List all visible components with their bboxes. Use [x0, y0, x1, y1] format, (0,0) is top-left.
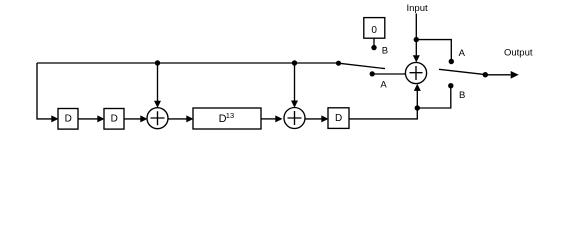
- arrow down into X2: [291, 101, 298, 108]
- wire J3 to switch contact B2: [417, 86, 451, 108]
- wire X2 to D3: [305, 118, 322, 120]
- arrow into D2: [97, 115, 104, 122]
- wire feedback top: [37, 62, 341, 64]
- adder X1: [147, 108, 168, 129]
- constant 0 box: [364, 18, 385, 39]
- svg-text:A: A: [380, 79, 387, 90]
- delay D13: [193, 108, 261, 129]
- svg-text:B: B: [459, 90, 465, 101]
- wire D13 to adder X2: [261, 118, 276, 120]
- switch S1 blade: [339, 63, 386, 68]
- wire contact A1 to adder X3: [372, 73, 405, 75]
- adder X3: [405, 62, 426, 83]
- svg-text:B: B: [382, 46, 388, 57]
- arrow into D13: [186, 115, 193, 122]
- svg-text:Input: Input: [407, 3, 428, 14]
- wire Input down into adder X3: [415, 14, 417, 56]
- adder X2: [284, 108, 305, 129]
- svg-text:D: D: [111, 114, 118, 125]
- arrow into D1: [51, 115, 58, 122]
- wire tap down to X1: [157, 63, 159, 101]
- delay D2: [104, 109, 124, 130]
- svg-text:D: D: [65, 114, 72, 125]
- wire tap down to X2: [294, 63, 296, 101]
- arrow output: [511, 71, 519, 79]
- node contact B1: [371, 45, 376, 50]
- wire output: [485, 74, 510, 76]
- wire input branch to contact A2: [416, 40, 451, 61]
- wire D1 to D2: [78, 118, 98, 120]
- wire feedback left vertical into D1: [37, 63, 52, 119]
- svg-text:Output: Output: [504, 48, 533, 59]
- svg-text:A: A: [459, 48, 466, 59]
- node contact A2: [449, 59, 454, 64]
- arrow into adder X1: [140, 115, 147, 122]
- switch S2 blade: [439, 69, 485, 74]
- svg-text:D: D: [335, 113, 342, 124]
- node J2 tap above X2: [292, 60, 297, 65]
- delay D1: [58, 109, 78, 130]
- node output junction: [483, 72, 488, 77]
- node input branch: [414, 37, 419, 42]
- wire D3 up to adder X3: [349, 91, 417, 119]
- arrow down into X1: [154, 101, 161, 108]
- arrow into adder X2: [275, 115, 282, 122]
- arrow into D3: [321, 115, 328, 122]
- svg-text:13: 13: [226, 111, 234, 120]
- wire D2 to adder X1: [124, 118, 141, 120]
- label D13 value: [219, 111, 235, 125]
- node J3 junction on D3 riser: [415, 105, 420, 110]
- wire 0 box to contact B1: [373, 38, 375, 45]
- svg-text:0: 0: [371, 25, 377, 36]
- arrow up into adder X3: [414, 84, 421, 91]
- delay D3: [328, 108, 349, 129]
- node contact B2: [448, 83, 453, 88]
- node J1 tap above X1: [155, 60, 160, 65]
- wire X1 to D13: [168, 118, 187, 120]
- node contact A1: [370, 71, 375, 76]
- node switch S1 pole: [336, 61, 341, 66]
- arrow down into adder X3: [413, 55, 420, 62]
